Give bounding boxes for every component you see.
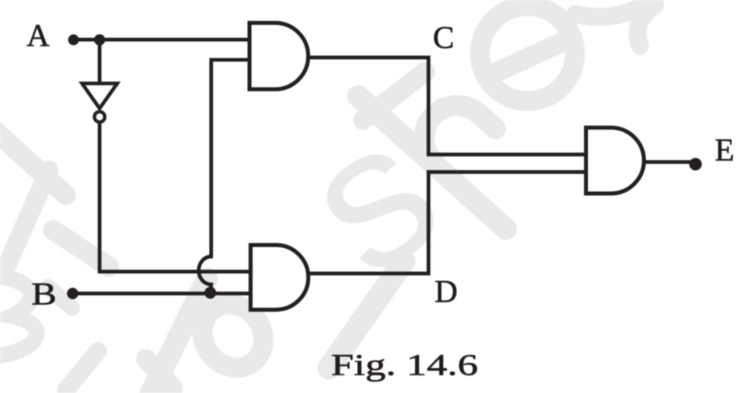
node dot input B terminal xyxy=(67,288,78,299)
wire input A to top AND gate U1 pin 1 xyxy=(74,38,250,42)
svg-text:D: D xyxy=(435,273,458,309)
node dot output E terminal xyxy=(689,158,702,171)
svg-text:A: A xyxy=(26,17,49,53)
wire B junction up (with crossover hop) to top AND gate U1 pin 2 xyxy=(199,60,250,293)
output gate U3 (right) xyxy=(586,128,644,194)
node dot input A terminal xyxy=(68,34,79,45)
wire input B to bottom AND gate U2 lower input xyxy=(73,292,251,296)
inverter (NOT gate) triangle xyxy=(82,83,117,108)
wire node C from U1 output right then down to U3 upper input xyxy=(308,58,586,155)
svg-text:B: B xyxy=(31,276,56,312)
inverter output bubble xyxy=(94,112,104,122)
wire U3 output to node E xyxy=(644,160,691,164)
wire inverter output down then right to bottom AND gate U2 upper input xyxy=(100,123,251,272)
svg-text:Fig. 14.6: Fig. 14.6 xyxy=(331,347,478,382)
AND gate U2 (bottom) xyxy=(251,245,309,310)
wire node D from U2 output right then up to U3 lower input xyxy=(309,172,587,274)
AND gate U1 (top) xyxy=(250,23,309,89)
node dot junction on A line xyxy=(94,34,105,45)
wire node A junction down to inverter input xyxy=(98,40,102,83)
svg-text:E: E xyxy=(715,132,735,168)
node dot junction on B line xyxy=(204,287,216,299)
svg-text:C: C xyxy=(433,19,454,55)
